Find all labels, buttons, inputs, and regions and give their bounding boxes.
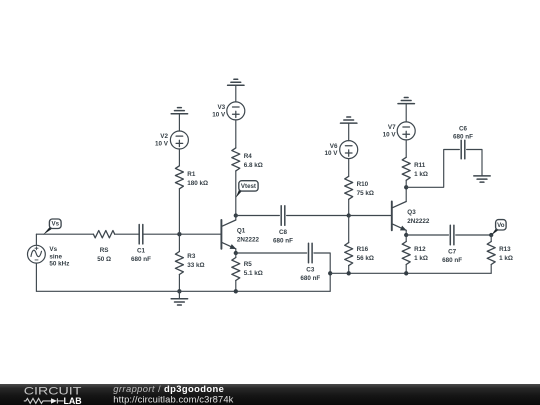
svg-text:Vo: Vo: [497, 222, 505, 229]
label Vs sine 50 kHz: [49, 246, 69, 268]
wire R13 to rail: [490, 265, 492, 274]
svg-text:C7: C7: [448, 249, 457, 256]
node ground rail junction: [328, 271, 332, 275]
svg-text:680 nF: 680 nF: [453, 133, 473, 140]
wire main input net (top): [36, 233, 93, 235]
label Q3 2N2222: [407, 209, 430, 225]
svg-text:Vtest: Vtest: [241, 183, 256, 190]
svg-text:180 kΩ: 180 kΩ: [187, 180, 208, 187]
svg-text:R16: R16: [357, 246, 369, 253]
wire ground to V2: [178, 114, 180, 131]
wire Vs bottom lead: [35, 263, 37, 291]
capacitor C1: [138, 225, 140, 244]
resistor R3: [178, 234, 180, 251]
svg-text:1 kΩ: 1 kΩ: [414, 255, 428, 262]
resistor R4: [232, 148, 240, 171]
ground above V6: [341, 122, 357, 124]
wire C6 to ground: [467, 150, 482, 176]
voltage source V3: [227, 102, 245, 120]
transistor Q1 2N2222: [221, 220, 236, 249]
svg-text:50 kHz: 50 kHz: [49, 261, 69, 268]
label R1 180 kOhm: [187, 171, 208, 187]
svg-text:C3: C3: [306, 267, 315, 274]
ground above V3: [228, 84, 244, 86]
wire V7 to R11: [405, 140, 407, 157]
svg-text:C8: C8: [279, 229, 288, 236]
ground right of C6: [474, 175, 490, 177]
voltage source V6: [340, 141, 358, 159]
label R13 1 kOhm: [499, 246, 513, 262]
svg-text:R1: R1: [187, 171, 196, 178]
capacitor C8: [280, 206, 282, 225]
svg-text:10 V: 10 V: [212, 112, 226, 119]
capacitor C7: [449, 225, 451, 244]
wire bottom ground rail left: [36, 290, 330, 292]
svg-text:Q1: Q1: [237, 228, 246, 235]
resistor R10: [345, 176, 353, 199]
node tag Vtest: [236, 190, 242, 198]
wire R3 to ground rail: [178, 275, 180, 292]
svg-text:6.8 kΩ: 6.8 kΩ: [244, 162, 263, 169]
svg-text:50 Ω: 50 Ω: [97, 256, 111, 263]
svg-text:680 nF: 680 nF: [131, 256, 151, 263]
wire Q3 emitter lead: [405, 230, 407, 235]
wire Q1 emitter to node: [235, 249, 237, 253]
resistor R5: [235, 253, 237, 258]
wire ground to V3: [235, 85, 237, 102]
svg-text:680 nF: 680 nF: [300, 275, 320, 282]
wire R1 to node: [178, 189, 180, 234]
wire Q3 collector lead: [405, 187, 407, 201]
svg-text:1 kΩ: 1 kΩ: [414, 171, 428, 178]
wire C8 to R10/R16 node: [287, 215, 349, 217]
svg-text:R10: R10: [357, 181, 369, 188]
svg-text:680 nF: 680 nF: [442, 257, 462, 264]
node R10/R16/Q3 base: [347, 213, 351, 217]
svg-text:33 kΩ: 33 kΩ: [187, 262, 204, 269]
label V7 10 V: [383, 124, 397, 138]
voltage source Vs (sine): [28, 245, 46, 263]
voltage source V2: [170, 131, 188, 149]
wire V6 to R10: [348, 159, 350, 177]
label R16 56 kOhm: [357, 246, 374, 262]
svg-text:sine: sine: [49, 253, 62, 260]
label V6 10 V: [325, 143, 339, 157]
svg-text:V3: V3: [217, 104, 225, 111]
label V2 10 V: [155, 133, 169, 147]
capacitor C3: [308, 243, 310, 262]
svg-text:56 kΩ: 56 kΩ: [357, 255, 374, 262]
resistor RS: [93, 231, 114, 238]
wire Q1 collector to node: [235, 216, 237, 220]
node R5 bottom: [234, 289, 238, 293]
wire node to Q3 base: [349, 215, 392, 217]
ground above V7: [398, 103, 414, 105]
wire R5 to ground rail: [235, 281, 237, 292]
svg-text:R5: R5: [244, 261, 253, 268]
label R11 1 kOhm: [414, 162, 428, 178]
svg-text:http://circuitlab.com/c3r874k: http://circuitlab.com/c3r874k: [113, 394, 233, 405]
wire ground to V7: [405, 104, 407, 122]
resistor R16: [348, 216, 350, 243]
svg-text:Q3: Q3: [407, 209, 416, 216]
svg-text:C1: C1: [137, 248, 146, 255]
node Q3 collector junction: [404, 185, 408, 189]
wire bottom ground rail right: [330, 272, 491, 274]
node tag Vo: [491, 229, 498, 236]
wire R4 to Q1 collector node: [235, 171, 237, 216]
svg-text:10 V: 10 V: [155, 141, 169, 148]
label C1 680 nF: [131, 248, 151, 264]
svg-text:10 V: 10 V: [383, 132, 397, 139]
svg-text:R11: R11: [414, 162, 426, 169]
svg-text:V6: V6: [330, 143, 338, 150]
svg-text:R13: R13: [499, 246, 511, 253]
svg-text:V7: V7: [388, 124, 396, 131]
node R3 bottom: [177, 289, 181, 293]
svg-text:grrapport / dp3goodone: grrapport / dp3goodone: [113, 383, 224, 394]
wire Vs top lead: [35, 234, 37, 245]
node Q1 emitter junction: [234, 251, 238, 255]
footer bar background: [0, 384, 540, 405]
svg-text:1 kΩ: 1 kΩ: [499, 255, 513, 262]
node Q1 collector junction: [234, 213, 238, 217]
node R12 bottom: [404, 271, 408, 275]
label R12 1 kOhm: [414, 246, 428, 262]
wire RS to C1: [115, 233, 140, 235]
label R5 5.1 kOhm: [244, 261, 263, 277]
wire C7 to Vo node: [456, 234, 492, 236]
wire V3 to R4: [235, 120, 237, 148]
wire Q1 collector to C8: [236, 215, 280, 217]
svg-text:C6: C6: [459, 126, 468, 133]
node R16 bottom: [347, 271, 351, 275]
label C7 680 nF: [442, 249, 462, 265]
label C6 680 nF: [453, 126, 473, 141]
wire C3 to ground rail corner: [314, 253, 330, 291]
wire ground to V6: [348, 123, 350, 141]
svg-text:Vs: Vs: [49, 246, 57, 253]
svg-text:R12: R12: [414, 246, 426, 253]
wire R11 to collector node: [405, 180, 407, 187]
wire Q1 emitter to C3: [236, 252, 307, 254]
wire R12 to rail: [405, 265, 407, 274]
resistor R11: [402, 157, 410, 180]
svg-text:R4: R4: [244, 153, 253, 160]
label R3 33 kOhm: [187, 253, 204, 269]
logo resistor squiggle and diode: [24, 398, 64, 403]
node tag Vs: [43, 227, 52, 235]
wire R10 to node: [348, 199, 350, 215]
wire V2 to R1: [178, 149, 180, 166]
svg-text:10 V: 10 V: [325, 150, 339, 157]
node R1/R3/base junction: [177, 232, 181, 236]
label R4 6.8 kOhm: [244, 153, 263, 169]
svg-text:680 nF: 680 nF: [273, 238, 293, 245]
node Vo junction: [489, 233, 493, 237]
wire collector node to C6 riser: [406, 150, 459, 188]
ground above V2: [171, 113, 187, 115]
label RS 50 Ohm: [97, 247, 111, 263]
transistor Q3 2N2222: [392, 202, 407, 231]
wire C1 to Q1 base: [143, 233, 222, 235]
svg-text:LAB: LAB: [64, 396, 82, 405]
ground at rail: [178, 291, 180, 299]
capacitor C6: [460, 140, 462, 158]
wire R16 to rail: [348, 266, 350, 274]
label C3 680 nF: [300, 267, 320, 283]
node Q3 emitter junction: [404, 233, 408, 237]
label Q1 2N2222: [237, 228, 260, 244]
resistor R12: [405, 235, 407, 242]
svg-text:RS: RS: [100, 247, 109, 254]
resistor R1: [175, 166, 183, 189]
svg-text:2N2222: 2N2222: [237, 237, 260, 244]
svg-text:75 kΩ: 75 kΩ: [357, 190, 374, 197]
resistor R13: [490, 235, 492, 242]
svg-text:Vs: Vs: [51, 221, 59, 228]
voltage source V7: [397, 122, 415, 140]
label R10 75 kOhm: [357, 181, 374, 197]
svg-text:R3: R3: [187, 253, 196, 260]
svg-text:V2: V2: [160, 133, 168, 140]
svg-text:2N2222: 2N2222: [407, 218, 430, 225]
wire Q3 emitter to C7: [406, 234, 448, 236]
svg-text:5.1 kΩ: 5.1 kΩ: [244, 270, 263, 277]
label C8 680 nF: [273, 229, 293, 245]
label V3 10 V: [212, 104, 226, 118]
